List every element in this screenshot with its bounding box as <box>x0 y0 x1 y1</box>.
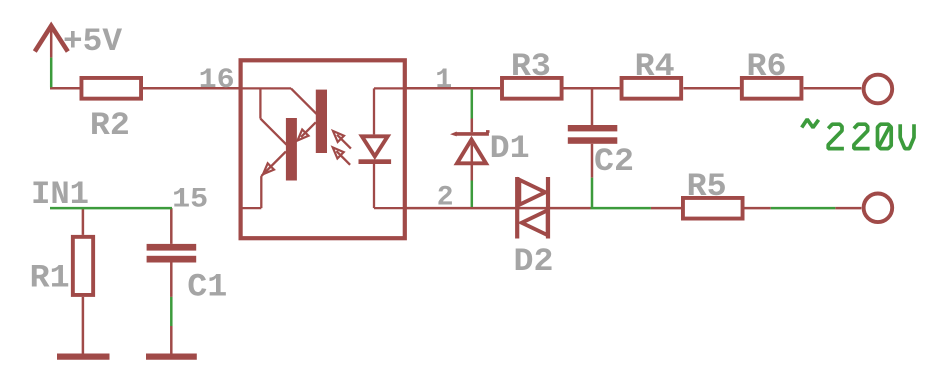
svg-text:R5: R5 <box>687 168 727 205</box>
svg-text:C2: C2 <box>594 143 634 180</box>
svg-text:R1: R1 <box>30 260 70 297</box>
svg-text:D2: D2 <box>514 243 554 280</box>
svg-text:+5V: +5V <box>63 23 123 60</box>
svg-text:1: 1 <box>435 65 452 96</box>
svg-text:R6: R6 <box>747 48 787 85</box>
svg-text:16: 16 <box>199 65 235 96</box>
svg-text:R4: R4 <box>635 48 675 85</box>
svg-text:2: 2 <box>437 182 454 213</box>
svg-text:D1: D1 <box>490 130 530 167</box>
svg-text:C1: C1 <box>187 268 227 305</box>
svg-text:R3: R3 <box>511 48 551 85</box>
svg-text:15: 15 <box>172 184 208 215</box>
svg-text:R2: R2 <box>90 107 130 144</box>
svg-text:IN1: IN1 <box>31 176 89 213</box>
